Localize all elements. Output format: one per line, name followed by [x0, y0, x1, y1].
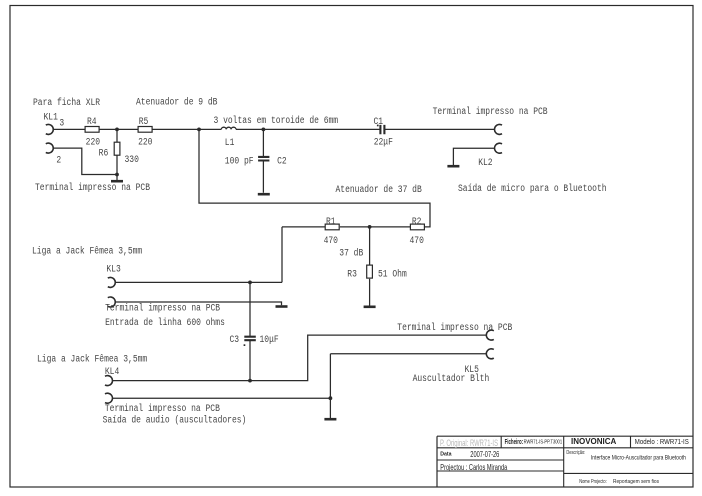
- svg-text:Interface Micro-Auscultador pa: Interface Micro-Auscultador para Bluetoo…: [591, 456, 686, 462]
- svg-text:470: 470: [410, 236, 424, 247]
- svg-text:Data: Data: [440, 451, 451, 457]
- svg-text:100 pF: 100 pF: [225, 156, 254, 167]
- svg-text:2007-07-26: 2007-07-26: [470, 450, 499, 459]
- svg-text:C1: C1: [374, 116, 384, 127]
- svg-text:Descrição:: Descrição:: [566, 450, 585, 456]
- svg-text:51 Ohm: 51 Ohm: [378, 269, 407, 280]
- svg-text:3 voltas em toroide de 6mm: 3 voltas em toroide de 6mm: [214, 115, 339, 126]
- svg-text:R1: R1: [326, 216, 336, 227]
- svg-text:KL4: KL4: [105, 366, 119, 377]
- svg-text:3: 3: [59, 118, 64, 129]
- svg-text:R6: R6: [99, 148, 109, 159]
- svg-text:INOVONICA: INOVONICA: [571, 437, 617, 446]
- svg-text:220: 220: [138, 137, 152, 148]
- svg-text:22μF: 22μF: [374, 137, 393, 148]
- svg-text:Atenuador de 37 dB: Atenuador de 37 dB: [336, 184, 423, 195]
- svg-text:R3: R3: [347, 269, 357, 280]
- svg-text:Terminal impresso na PCB: Terminal impresso na PCB: [35, 182, 151, 193]
- svg-text:Liga a Jack Fêmea 3,5mm: Liga a Jack Fêmea 3,5mm: [32, 246, 142, 257]
- svg-text:R2: R2: [412, 216, 422, 227]
- svg-text:P. Original: RWR71-IS: P. Original: RWR71-IS: [440, 438, 498, 448]
- svg-text:Nome Projecto:: Nome Projecto:: [579, 479, 607, 485]
- svg-text:Ficheiro:: Ficheiro:: [505, 439, 523, 446]
- svg-text:RWR71-IS-PP.T3001: RWR71-IS-PP.T3001: [524, 440, 563, 446]
- svg-text:Terminal impresso na PCB: Terminal impresso na PCB: [397, 322, 513, 333]
- svg-text:220: 220: [86, 137, 100, 148]
- svg-text:R4: R4: [87, 116, 97, 127]
- svg-text:Saída de audio (auscultadores): Saída de audio (auscultadores): [103, 415, 247, 426]
- svg-text:KL1: KL1: [44, 112, 58, 123]
- svg-text:R5: R5: [139, 116, 149, 127]
- svg-text:Terminal impresso na PCB: Terminal impresso na PCB: [105, 403, 221, 414]
- svg-text:Auscultador Blth: Auscultador Blth: [413, 374, 490, 385]
- svg-text:10μF: 10μF: [260, 334, 279, 345]
- svg-text:L1: L1: [225, 137, 235, 148]
- svg-text:C2: C2: [277, 156, 287, 167]
- svg-text:470: 470: [324, 236, 338, 247]
- svg-text:Saída de micro para o Bluetoot: Saída de micro para o Bluetooth: [458, 183, 607, 194]
- svg-text:2: 2: [56, 155, 61, 166]
- svg-text:Modelo : RWR71-IS: Modelo : RWR71-IS: [635, 437, 689, 446]
- svg-text:Para ficha XLR: Para ficha XLR: [33, 97, 101, 108]
- svg-text:Liga a Jack Fêmea 3,5mm: Liga a Jack Fêmea 3,5mm: [37, 354, 147, 365]
- svg-text:KL2: KL2: [478, 158, 492, 169]
- svg-text:KL3: KL3: [106, 264, 120, 275]
- svg-text:330: 330: [125, 154, 139, 165]
- svg-text:C3: C3: [230, 334, 240, 345]
- svg-text:Atenuador de 9 dB: Atenuador de 9 dB: [136, 97, 218, 108]
- svg-text:Reportagem sem fios: Reportagem sem fios: [613, 479, 659, 485]
- svg-text:Terminal impresso na PCB: Terminal impresso na PCB: [433, 106, 549, 117]
- svg-text:Terminal impresso na PCB: Terminal impresso na PCB: [105, 303, 221, 314]
- svg-text:Entrada de linha 600 ohms: Entrada de linha 600 ohms: [105, 317, 225, 328]
- svg-text:Projectou : Carlos Miranda: Projectou : Carlos Miranda: [440, 463, 507, 472]
- svg-text:37 dB: 37 dB: [339, 248, 364, 259]
